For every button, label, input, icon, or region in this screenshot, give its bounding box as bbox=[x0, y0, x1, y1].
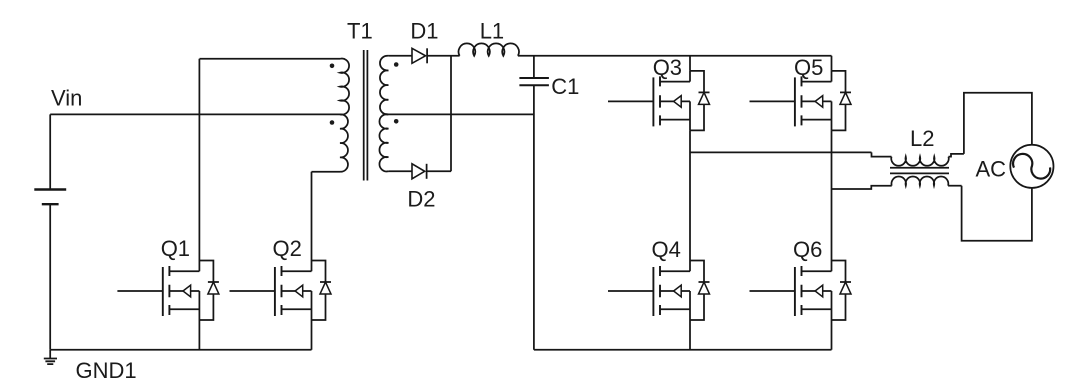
svg-text:D2: D2 bbox=[407, 186, 435, 211]
svg-text:Vin: Vin bbox=[51, 86, 82, 111]
svg-text:Q2: Q2 bbox=[273, 236, 302, 261]
svg-text:L2: L2 bbox=[910, 126, 934, 151]
svg-text:Q6: Q6 bbox=[793, 237, 822, 262]
svg-text:C1: C1 bbox=[551, 74, 579, 99]
svg-text:Q4: Q4 bbox=[652, 237, 681, 262]
svg-text:AC: AC bbox=[976, 157, 1007, 182]
svg-text:D1: D1 bbox=[410, 19, 438, 44]
svg-text:T1: T1 bbox=[347, 19, 373, 44]
svg-text:Q3: Q3 bbox=[653, 55, 682, 80]
svg-text:GND1: GND1 bbox=[76, 358, 137, 383]
svg-text:Q5: Q5 bbox=[794, 55, 823, 80]
svg-text:L1: L1 bbox=[480, 19, 504, 44]
svg-text:Q1: Q1 bbox=[161, 236, 190, 261]
